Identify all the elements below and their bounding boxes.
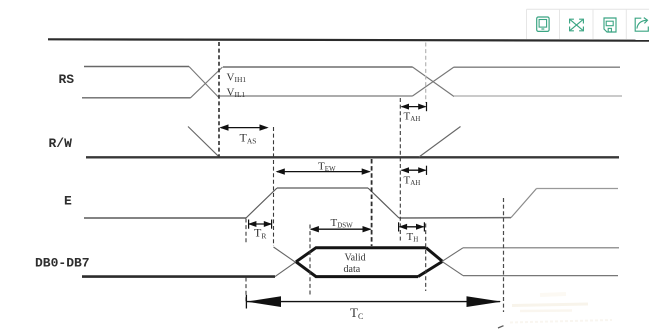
- dashed ref line x=246 upper: [245, 219, 247, 244]
- dashed ref line x=425.7 upper (light): [425, 43, 427, 104]
- svg-text:RS: RS: [59, 72, 75, 87]
- toolbar cell separators: [526, 9, 528, 39]
- toolbar top border: [527, 8, 649, 10]
- valid data bus bottom edge: [296, 262, 418, 277]
- RS crossover 2 rising: [413, 67, 455, 96]
- DB transition thin falling: [274, 247, 317, 277]
- arrow TDSW: [310, 226, 372, 232]
- E falling edge 1: [368, 188, 399, 218]
- dashed ref line x=371.6 (bold): [371, 159, 373, 246]
- RS low rail right: [454, 95, 622, 97]
- RS crossover 2 falling: [413, 67, 455, 97]
- svg-text:Valid: Valid: [345, 253, 366, 264]
- R/W low rail: [86, 156, 619, 158]
- top rule: [48, 39, 649, 40]
- DB low rail right: [463, 275, 618, 277]
- RS low rail middle: [220, 95, 413, 97]
- RS low rail left: [82, 97, 191, 99]
- E high rail 1: [277, 187, 368, 189]
- toolbar icon: save floppy: [604, 18, 616, 32]
- toolbar icon: tablet: [537, 17, 549, 31]
- toolbar icon: share/export (cut at right edge): [635, 18, 648, 32]
- DB reopen thin bottom diagonal: [442, 261, 463, 275]
- RS crossover 1 falling: [189, 67, 219, 98]
- E rising edge 1: [246, 188, 277, 218]
- dashed ref line x=503.5: [503, 198, 505, 312]
- R/W rising edge: [419, 127, 461, 158]
- dashed ref line x=273.5: [273, 127, 275, 246]
- valid data bus right close bottom: [418, 261, 443, 276]
- valid data bus top edge: [296, 248, 426, 262]
- svg-text:R/W: R/W: [49, 136, 73, 151]
- arrow TH: [399, 222, 425, 231]
- valid data bus right close top: [426, 248, 443, 262]
- RS crossover 1 rising: [191, 67, 223, 98]
- dashed ref line x=246 lower (Tc left): [245, 278, 247, 304]
- RS high rail right: [454, 66, 620, 68]
- dashed ref line x=425.7 lower: [425, 224, 427, 292]
- svg-text:E: E: [64, 194, 72, 209]
- svg-text:DB0-DB7: DB0-DB7: [35, 256, 90, 271]
- R/W falling edge: [188, 127, 219, 157]
- RS high rail left: [84, 66, 189, 68]
- arrow TAH upper: [401, 102, 427, 111]
- E low rail 1: [84, 217, 246, 219]
- toolbar icon: expand arrows: [570, 19, 584, 31]
- arrow TC: [246, 295, 501, 309]
- dashed ref line x=310: [309, 225, 311, 297]
- arrow TAH lower: [401, 166, 427, 175]
- small stray mark: [498, 326, 504, 328]
- DB transition thin rising: [275, 248, 316, 277]
- DB high rail right: [463, 247, 619, 249]
- dashed ref line at RS transition x=219: [218, 42, 220, 157]
- arrow TAS: [219, 124, 268, 130]
- dashed ref line x=400.3: [399, 98, 401, 241]
- arrow TE: [248, 220, 272, 229]
- DB low rail: [82, 275, 275, 278]
- E high rail 2: [537, 188, 619, 190]
- faint watermark smudges: [510, 294, 612, 323]
- E rising edge 2: [511, 189, 537, 218]
- E low rail 2: [399, 217, 511, 219]
- svg-text:data: data: [344, 264, 361, 275]
- RS high rail middle: [223, 66, 413, 68]
- DB reopen thin top diagonal: [442, 248, 463, 262]
- arrow TEW: [276, 168, 371, 174]
